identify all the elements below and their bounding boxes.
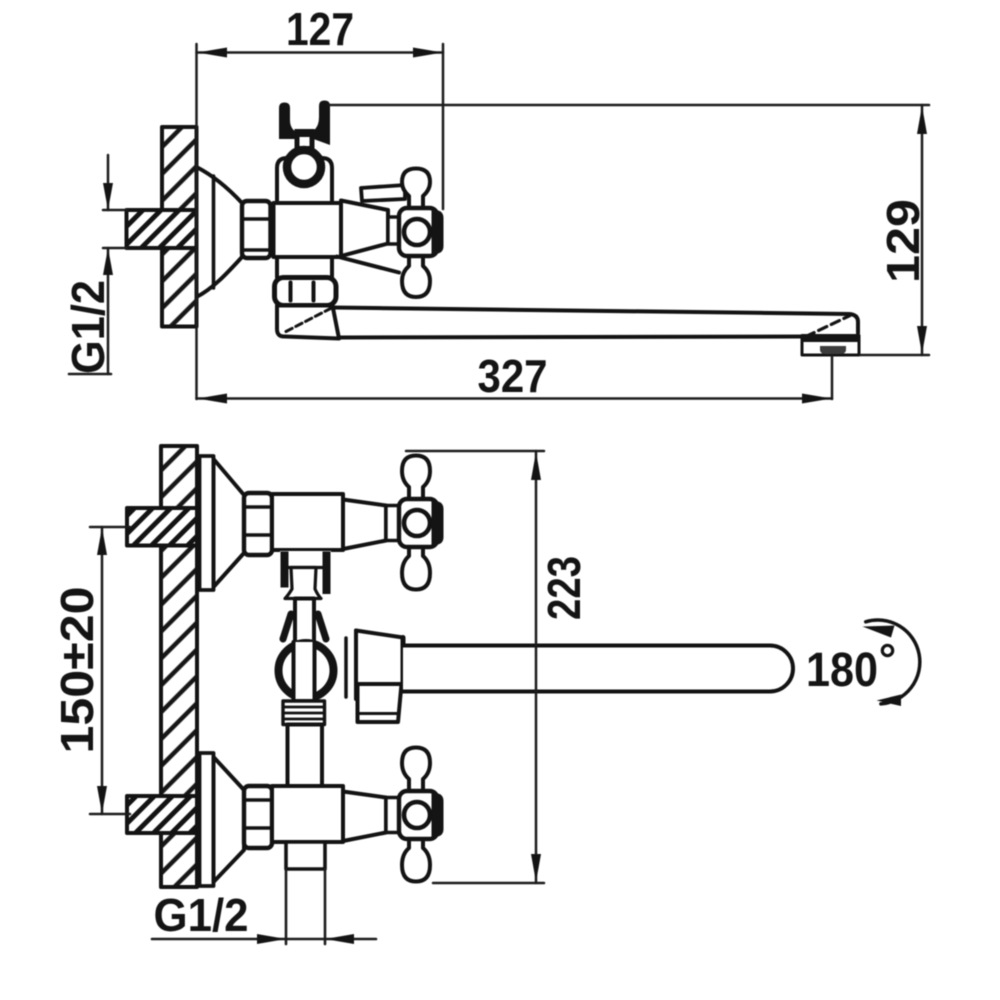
ring below holder [287,150,321,184]
outlet pipe below lower valve [286,842,325,944]
lower handle hub circle [404,802,430,828]
spout block collar [344,638,348,697]
handle neck [388,217,399,244]
upper handle top arm [402,456,430,501]
threaded section [283,701,325,725]
collar block under upper valve [280,551,331,597]
lower valve body [272,786,343,842]
lower handle bottom arm [402,838,430,882]
upper valve body [272,494,343,550]
main valve body block [274,203,342,257]
extension line from aerator to 327 dim [831,355,834,399]
svg-text:180: 180 [806,644,878,697]
ball nut (side view) [275,278,337,306]
inlet pipe (side view) [127,210,197,248]
lower handle end cap [432,793,444,837]
cone wings above ball [283,614,326,639]
cup connector [285,568,321,599]
handle top arm (side view) [402,169,430,210]
spout (side view) [333,308,859,338]
180 degree rotation arc [863,620,920,706]
svg-text:129: 129 [877,199,929,283]
handle rear arm bar [361,185,405,201]
spout block [356,631,403,700]
lower bonnet cone [343,792,386,842]
svg-text:327: 327 [478,350,548,402]
upper handle hub [399,499,438,547]
upper inlet pipe [127,508,197,546]
lower escutcheon bell [214,757,245,882]
svg-text:127: 127 [286,3,354,55]
upper bonnet cone [343,500,386,550]
down pipe to ball [295,599,314,647]
svg-text:G1/2: G1/2 [154,889,249,941]
lower inlet pipe [127,796,197,833]
dimension 127 [197,3,444,399]
svg-text:150±20: 150±20 [51,587,103,754]
spout block lower nut [358,684,402,722]
svg-text:G1/2: G1/2 [62,280,114,374]
dimension 150±20 [51,527,130,814]
lower handle neck [386,798,399,833]
180 degree label [806,644,893,697]
upper escutcheon bell [214,459,245,587]
escutcheon (side view) [197,167,243,297]
dimension 223 [406,451,590,883]
wall section (side view) [162,127,197,327]
lower hex nut [244,786,272,848]
ball joint [275,639,338,702]
upper handle bottom arm [402,546,430,590]
handle hub [399,208,438,256]
right bonnet cone [341,201,388,257]
dimension G1/2 (bottom) [152,889,376,944]
lower escutcheon flange [200,753,214,886]
upper hex nut [244,493,272,555]
pipe between threads and lower valve [288,725,323,787]
upper escutcheon flange [200,456,214,590]
shower holder bracket [279,101,330,151]
lower contour line to handle [337,257,399,273]
svg-text:223: 223 [538,556,590,620]
handle end cap [432,210,444,254]
dimension 327 [197,350,833,404]
G1/2 dimension (top view) [62,155,114,374]
upper handle neck [386,506,399,541]
diverter housing [277,306,339,339]
swivel spout (front view) [403,646,793,692]
valve body upper shoulder [277,158,332,203]
dimension 129 [329,105,929,355]
lower handle top arm [402,748,430,793]
hex nut on escutcheon (side view) [242,201,271,258]
handle bottom arm (side view) [402,256,430,297]
wall section (front view) [161,446,197,887]
lower body section [277,257,332,278]
upper handle hub circle [404,510,430,536]
handle hub circle [404,219,430,245]
upper handle end cap [432,501,444,545]
lower handle hub [399,791,438,839]
pipe extension lines [103,210,127,248]
aerator housing at spout end [801,335,860,356]
